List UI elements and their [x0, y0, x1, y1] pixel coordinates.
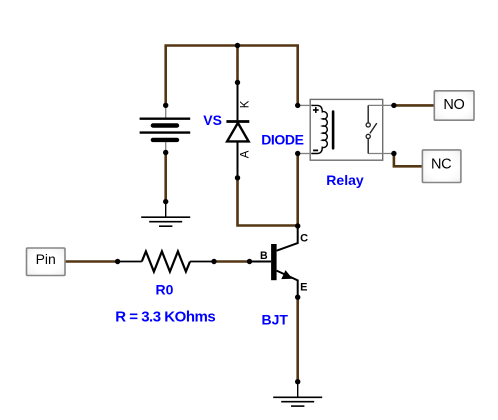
relay U1: [295, 99, 397, 160]
relay coil: [312, 105, 328, 153]
wire diode anode to collector node: [238, 178, 298, 226]
relay plus mark: [313, 109, 319, 111]
wire Pin to resistor: [65, 260, 118, 263]
relay minus mark: [313, 149, 318, 151]
svg-text:R0: R0: [156, 282, 174, 298]
node top junction: [235, 43, 240, 48]
svg-text:B: B: [260, 250, 268, 262]
ground (battery): [141, 199, 190, 226]
svg-text:R = 3.3 KOhms: R = 3.3 KOhms: [115, 308, 216, 325]
svg-text:C: C: [300, 233, 308, 245]
ground (emitter): [273, 379, 322, 406]
svg-text:K: K: [240, 100, 252, 108]
node collector junction: [295, 223, 300, 228]
svg-text:DIODE: DIODE: [261, 131, 304, 147]
transistor BJT (NPN): [247, 226, 301, 300]
wire battery to ground: [164, 153, 167, 202]
wire resistor to base: [214, 260, 250, 263]
resistor R0: [115, 251, 217, 271]
relay core bar: [332, 112, 335, 149]
wire relay to NC: [394, 154, 423, 166]
wire relay to NO: [394, 104, 434, 107]
terminal Pin: [27, 248, 66, 276]
svg-text:A: A: [240, 150, 252, 158]
svg-text:VS: VS: [203, 112, 222, 128]
svg-text:Pin: Pin: [36, 251, 56, 267]
svg-text:BJT: BJT: [262, 312, 289, 328]
wire top rail from battery to relay coil: [166, 46, 298, 106]
svg-text:NC: NC: [431, 157, 451, 173]
svg-text:NO: NO: [443, 97, 464, 113]
wire emitter to ground: [296, 297, 299, 382]
terminal NC: [422, 150, 461, 183]
wire diode cathode tap: [236, 46, 239, 83]
terminal NO: [434, 91, 474, 120]
relay switch: [367, 105, 369, 122]
svg-text:Relay: Relay: [326, 172, 364, 188]
diode D: [226, 80, 249, 181]
svg-text:E: E: [300, 282, 307, 294]
battery VS: [140, 103, 191, 156]
wire relay coil minus down to collector node: [296, 154, 299, 227]
